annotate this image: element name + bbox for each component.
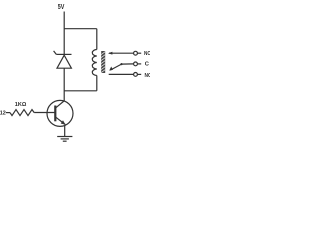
svg-text:NO: NO bbox=[144, 51, 150, 57]
svg-text:C: C bbox=[145, 62, 150, 68]
svg-text:12: 12 bbox=[0, 111, 6, 117]
svg-text:5V: 5V bbox=[58, 4, 65, 11]
svg-text:1KΩ: 1KΩ bbox=[15, 102, 27, 108]
svg-text:NC: NC bbox=[145, 73, 151, 79]
